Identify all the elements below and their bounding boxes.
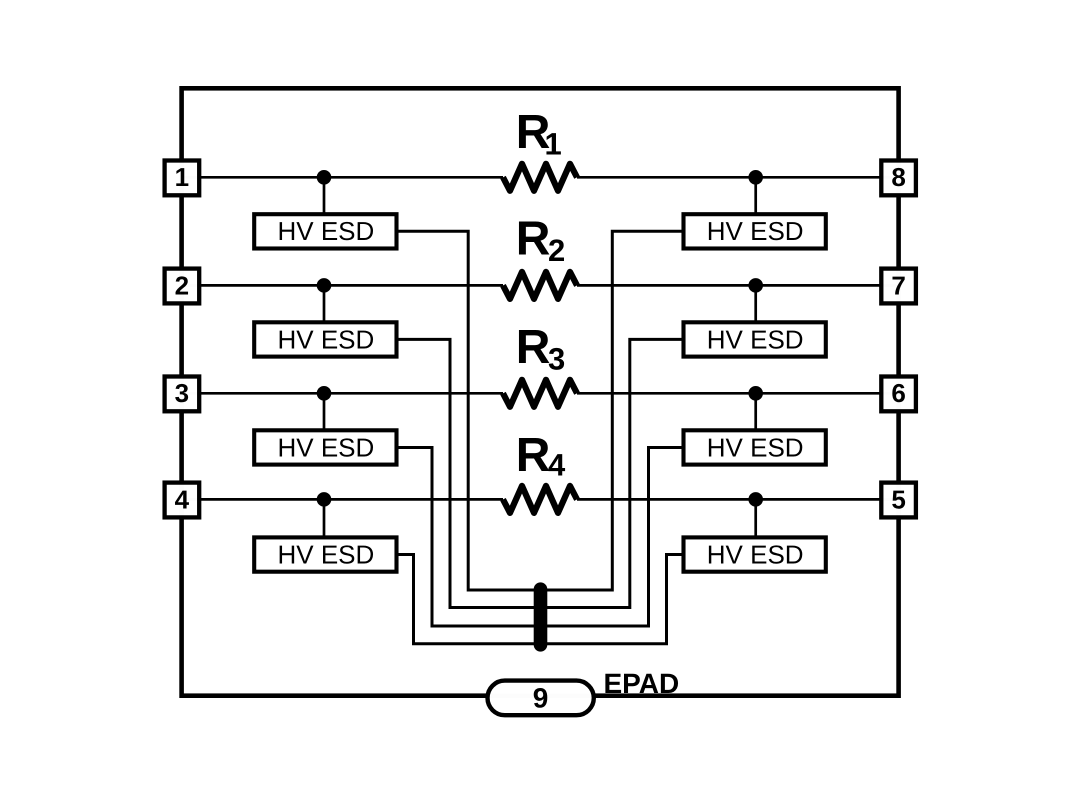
svg-text:4: 4 <box>548 448 566 483</box>
svg-text:R: R <box>516 429 551 482</box>
svg-text:8: 8 <box>891 162 905 192</box>
svg-text:6: 6 <box>891 378 905 408</box>
svg-text:HV ESD: HV ESD <box>707 324 804 354</box>
svg-text:R: R <box>516 212 551 265</box>
svg-text:7: 7 <box>891 270 905 300</box>
svg-text:HV ESD: HV ESD <box>707 432 804 462</box>
svg-text:2: 2 <box>175 270 189 300</box>
svg-text:HV ESD: HV ESD <box>707 216 804 246</box>
svg-text:1: 1 <box>175 162 189 192</box>
svg-text:1: 1 <box>545 126 562 161</box>
svg-text:EPAD: EPAD <box>604 668 680 699</box>
svg-text:HV ESD: HV ESD <box>707 539 804 569</box>
svg-text:HV ESD: HV ESD <box>277 324 374 354</box>
svg-text:4: 4 <box>175 484 190 514</box>
svg-text:3: 3 <box>175 378 189 408</box>
svg-text:5: 5 <box>891 484 905 514</box>
svg-text:2: 2 <box>548 233 565 268</box>
svg-text:3: 3 <box>548 342 565 377</box>
svg-text:HV ESD: HV ESD <box>277 216 374 246</box>
svg-text:R: R <box>516 321 551 374</box>
svg-text:HV ESD: HV ESD <box>277 432 374 462</box>
svg-text:HV ESD: HV ESD <box>277 539 374 569</box>
svg-text:9: 9 <box>533 683 549 714</box>
